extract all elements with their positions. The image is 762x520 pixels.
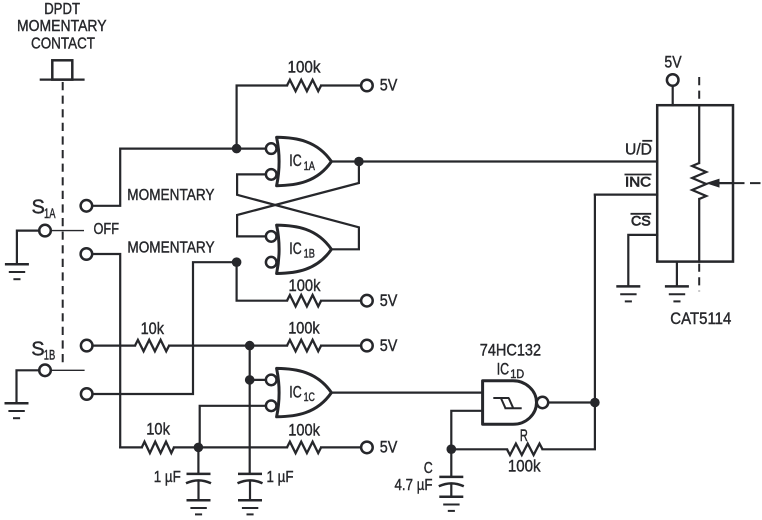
ground CS — [616, 286, 640, 301]
svg-text:1C: 1C — [304, 392, 315, 404]
svg-text:100k: 100k — [288, 58, 321, 77]
svg-text:1 µF: 1 µF — [267, 469, 294, 486]
switch S1A label — [32, 197, 56, 221]
svg-text:5V: 5V — [380, 76, 398, 95]
wire S1B lower throw to IC1B input — [93, 262, 237, 394]
pushbutton actuator — [41, 60, 84, 79]
svg-text:10k: 10k — [141, 319, 165, 338]
svg-text:CS: CS — [631, 213, 651, 229]
svg-text:1 µF: 1 µF — [154, 469, 181, 486]
wire IC1C input net vertical — [249, 346, 251, 473]
ground C1 — [187, 500, 211, 514]
wire IC1C lower input — [200, 406, 264, 448]
svg-text:5V: 5V — [664, 52, 682, 71]
power 5V terminal bottom row — [361, 438, 398, 457]
svg-text:1B: 1B — [44, 346, 56, 362]
resistor 10k upper — [135, 319, 169, 351]
wire 100k to 5V terminal — [321, 345, 361, 347]
wire 100k to 5V — [321, 446, 361, 448]
resistor 100k top pullup — [287, 58, 321, 92]
svg-text:1B: 1B — [304, 249, 316, 261]
svg-text:IC: IC — [289, 240, 301, 258]
switch S1B throw contact upper — [81, 340, 93, 352]
pin U/D label — [625, 141, 652, 159]
switch S1A throw contact lower — [81, 248, 93, 260]
nand gate IC1A — [266, 137, 331, 185]
node junction S1B row — [245, 341, 255, 351]
switch S1B throw contact lower — [81, 388, 93, 400]
node junction IC1C upper input — [245, 375, 255, 385]
svg-text:INC: INC — [625, 174, 651, 190]
wire IC1C output to IC1D input — [331, 392, 482, 394]
wire IC1D lower input — [451, 411, 482, 449]
wire bottom RC row — [120, 446, 142, 448]
ground S1A — [5, 264, 29, 279]
svg-text:IC: IC — [289, 383, 301, 401]
ground C2 — [238, 500, 262, 514]
wire stub IC1A upper input — [237, 148, 264, 150]
svg-text:100k: 100k — [508, 457, 541, 476]
svg-text:MOMENTARY: MOMENTARY — [127, 240, 214, 257]
power 5V terminal top — [361, 76, 398, 95]
wire 100k top pullup vertical — [237, 86, 287, 149]
schmitt hysteresis symbol — [493, 398, 521, 408]
switch S1B label — [31, 338, 55, 362]
node junction IC1A upper input — [232, 144, 242, 154]
svg-text:10k: 10k — [146, 419, 170, 438]
svg-text:MOMENTARY: MOMENTARY — [17, 18, 107, 35]
svg-text:U/D: U/D — [625, 141, 652, 158]
svg-text:DPDT: DPDT — [44, 1, 80, 18]
svg-text:C: C — [424, 460, 433, 477]
ground chip — [665, 286, 689, 301]
power 5V terminal S1B row — [361, 336, 398, 355]
power 5V terminal IC1B row — [361, 291, 398, 310]
resistor 100k pullup S1B row — [287, 318, 321, 351]
wire S1A pole to ground — [17, 231, 40, 263]
wire R to cap junction — [451, 448, 507, 450]
svg-text:CONTACT: CONTACT — [31, 36, 95, 53]
svg-text:1D: 1D — [510, 369, 524, 381]
svg-text:IC: IC — [289, 152, 301, 170]
svg-text:S: S — [32, 197, 45, 219]
potentiometer element inside chip — [692, 105, 706, 261]
IC U1 CAT5114 body — [657, 105, 733, 261]
nand gate IC1B — [266, 225, 331, 273]
svg-text:5V: 5V — [380, 438, 398, 457]
svg-text:OFF: OFF — [94, 221, 120, 238]
wire stub IC1A lower input feedback — [237, 174, 359, 249]
node junction timing cap — [447, 444, 457, 454]
wire stub IC1C upper input — [250, 379, 264, 381]
svg-text:100k: 100k — [288, 318, 320, 337]
wire 100k to 5V — [321, 300, 361, 302]
wire IC1D output — [548, 401, 595, 403]
svg-text:5V: 5V — [380, 291, 398, 310]
svg-text:MOMENTARY: MOMENTARY — [127, 187, 214, 204]
pin CS label — [631, 213, 652, 229]
mechanical link dashed line — [62, 82, 64, 364]
node junction IC1B lower input — [232, 257, 242, 267]
wire S1A lower throw down to bottom RC net — [92, 254, 120, 447]
svg-text:100k: 100k — [289, 276, 321, 295]
ground S1B — [5, 403, 29, 418]
switch S1A pole — [39, 225, 84, 237]
capacitor C1 1uF — [154, 447, 211, 499]
capacitor C2 1uF — [238, 469, 294, 499]
node junction IC1D output feedback — [590, 398, 600, 408]
wire stub IC1B upper input feedback — [237, 162, 359, 237]
pin INC label — [625, 174, 652, 190]
dashed wiper axis above chip — [698, 77, 700, 104]
wire INC pin — [595, 194, 657, 196]
node junction IC1A output — [354, 157, 364, 167]
svg-text:R: R — [520, 426, 528, 445]
switch S1B pole — [39, 365, 84, 377]
wire 10k to junction — [169, 345, 287, 347]
wire 10k to junction to 100k — [174, 446, 287, 448]
svg-text:1A: 1A — [44, 205, 56, 221]
wire S1B upper throw row — [93, 345, 136, 347]
wire U/D output line — [331, 160, 657, 162]
dashed wiper axis below chip — [698, 264, 700, 292]
potentiometer wiper arrow — [706, 179, 762, 188]
svg-text:CAT5114: CAT5114 — [670, 309, 731, 328]
svg-text:1A: 1A — [304, 161, 316, 173]
nand gate IC1C — [266, 368, 331, 416]
resistor 10k lower — [142, 419, 174, 453]
wire chip bottom to ground — [676, 262, 678, 286]
ground C — [439, 497, 463, 511]
capacitor C 4.7uF — [395, 449, 464, 495]
resistor 100k IC1B pullup — [287, 276, 321, 306]
svg-text:4.7 µF: 4.7 µF — [395, 477, 433, 494]
wire 100k to 5V — [321, 84, 361, 86]
svg-text:5V: 5V — [380, 336, 398, 355]
wire S1B pole to ground — [17, 370, 40, 402]
svg-text:S: S — [31, 338, 44, 360]
resistor 100k bottom pullup — [287, 421, 321, 454]
wire S1A upper throw to IC1A input — [92, 149, 236, 206]
label DPDT MOMENTARY CONTACT — [17, 1, 107, 53]
wire CS pin to ground — [628, 235, 657, 285]
wire 100k IC1B pullup vertical — [237, 262, 287, 301]
resistor R 100k feedback — [507, 426, 543, 476]
wire feedback vertical INC net — [543, 195, 595, 450]
svg-text:IC: IC — [497, 361, 509, 379]
power 5V terminal chip — [664, 52, 682, 105]
nand gate IC1D schmitt — [483, 361, 549, 425]
node junction cap C1 — [194, 443, 204, 453]
switch S1A throw contact upper — [81, 200, 93, 212]
svg-text:74HC132: 74HC132 — [480, 341, 541, 360]
svg-text:100k: 100k — [288, 421, 320, 440]
